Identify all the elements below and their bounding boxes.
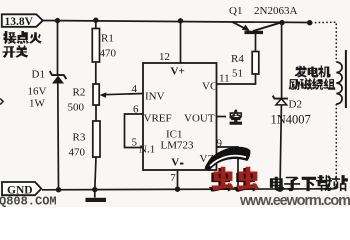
svg-text:Q1: Q1 [229,5,242,17]
svg-text:R4: R4 [231,53,244,65]
svg-text:R2: R2 [73,87,86,99]
svg-text:V: V [171,156,179,168]
svg-text:470: 470 [100,48,117,60]
svg-text:VC: VC [202,81,217,93]
svg-text:6: 6 [133,104,139,116]
svg-text:R3: R3 [73,132,86,144]
svg-text:N.1: N.1 [139,144,155,156]
svg-text:12: 12 [159,51,170,63]
svg-text:R1: R1 [101,33,114,45]
svg-text:V+: V+ [171,66,185,78]
svg-text:D2: D2 [289,99,302,111]
svg-text:VOUT: VOUT [184,113,215,125]
svg-text:2N2063A: 2N2063A [254,5,297,17]
svg-text:1W: 1W [29,98,46,110]
svg-text:VREF: VREF [144,113,172,125]
svg-text:9: 9 [217,138,223,150]
svg-text:16V: 16V [28,86,47,98]
svg-text:4: 4 [132,83,138,95]
svg-text:LM723: LM723 [161,140,195,152]
svg-text:www.eeworm.com: www.eeworm.com [239,193,350,207]
svg-text:5: 5 [132,137,138,149]
svg-text:D1: D1 [32,69,45,81]
svg-text:500: 500 [68,102,85,114]
svg-text:7: 7 [170,172,176,184]
svg-text:11: 11 [219,73,230,85]
svg-text:Q808.COM: Q808.COM [0,195,57,207]
svg-text:470: 470 [69,147,86,159]
svg-text:1N4007: 1N4007 [271,113,311,127]
svg-text:INV: INV [145,91,165,103]
svg-text:13.8V: 13.8V [5,16,34,28]
svg-text:51: 51 [232,68,243,80]
